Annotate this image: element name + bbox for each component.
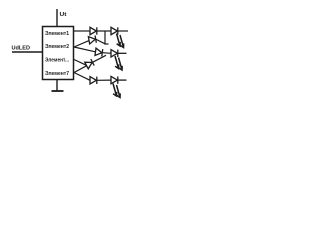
node junction wire down: [105, 31, 109, 44]
svg-text:UdLED: UdLED: [12, 46, 31, 52]
wire HL1 out: [118, 30, 128, 32]
controller box DD1: [43, 27, 74, 80]
wire pin4 up diagonal: [74, 66, 87, 73]
wire VD1 to HL1: [97, 30, 111, 32]
diode VD5: [90, 77, 97, 84]
diode VD3: [95, 48, 103, 56]
LED HL1 emission arrows: [117, 34, 124, 48]
wire VD3 to HL2: [102, 52, 111, 55]
supply pin wire Uп: [56, 9, 58, 27]
wire VD5 to HL4: [97, 79, 111, 81]
svg-text:Элемент7: Элемент7: [45, 71, 69, 77]
LED HL4 emission arrows: [113, 84, 120, 98]
background: [0, 0, 130, 101]
wire VD4 toward HL2 anode: [93, 55, 107, 62]
wire pin3 down diagonal: [74, 60, 87, 66]
diode VD4: [85, 59, 94, 69]
wire pin4 down diagonal: [74, 73, 90, 81]
svg-text:Ut: Ut: [60, 12, 67, 18]
svg-text:Элемент1: Элемент1: [45, 31, 69, 37]
svg-text:Элемент2: Элемент2: [45, 44, 69, 50]
wire VD2 to junction: [96, 39, 105, 44]
wire pin2 fan down: [74, 47, 96, 52]
LED HL1: [111, 27, 118, 34]
input wire UdLED: [12, 51, 43, 53]
wire pin1 to VD1: [74, 30, 90, 32]
svg-text:Элемент...: Элемент...: [45, 58, 69, 64]
LED HL4: [111, 76, 127, 83]
diode VD2: [88, 35, 96, 43]
ground wire: [56, 80, 58, 92]
ground: [52, 90, 64, 92]
LED HL2: [111, 50, 127, 57]
diode VD1: [90, 27, 97, 34]
wire pin2 fan up: [74, 41, 89, 47]
LED HL2 emission arrows: [115, 56, 122, 70]
